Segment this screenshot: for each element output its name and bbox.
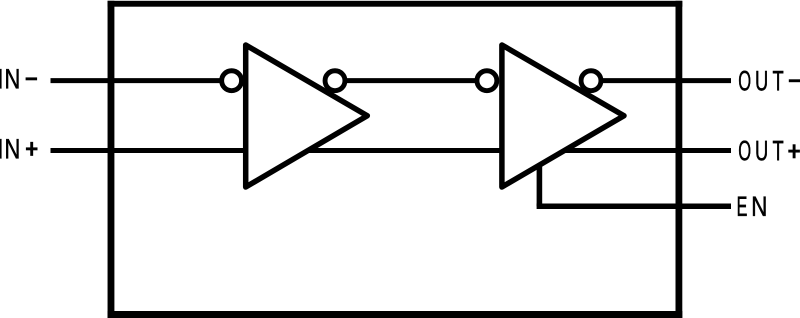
wire OUT- right segment	[591, 78, 731, 83]
outer block boundary box: left edge	[108, 1, 115, 318]
pin label IN+	[0, 139, 38, 158]
pin label OUT-	[739, 71, 800, 91]
inversion bubble 4 (stage 2 output)	[581, 71, 601, 91]
outer block boundary box: top edge	[108, 1, 683, 7]
wire IN+ to OUT+ bottom rail	[51, 148, 732, 153]
inversion bubble 1 (stage 1 input)	[222, 71, 242, 91]
inversion bubble 3 (stage 2 input)	[477, 71, 497, 91]
wire between stage outputs (top rail)	[335, 78, 487, 83]
outer block boundary box: right edge	[676, 1, 683, 318]
outer block boundary box: bottom edge	[108, 311, 683, 318]
wire IN- left stub	[51, 78, 233, 83]
wire EN	[537, 164, 543, 206]
pin label EN	[738, 197, 766, 216]
inversion bubble 2 (stage 1 output)	[325, 71, 345, 91]
buffer amplifier stage 1	[246, 45, 368, 187]
buffer amplifier stage 2	[502, 45, 624, 187]
pin label IN-	[0, 69, 37, 88]
pin label OUT+	[739, 141, 800, 161]
